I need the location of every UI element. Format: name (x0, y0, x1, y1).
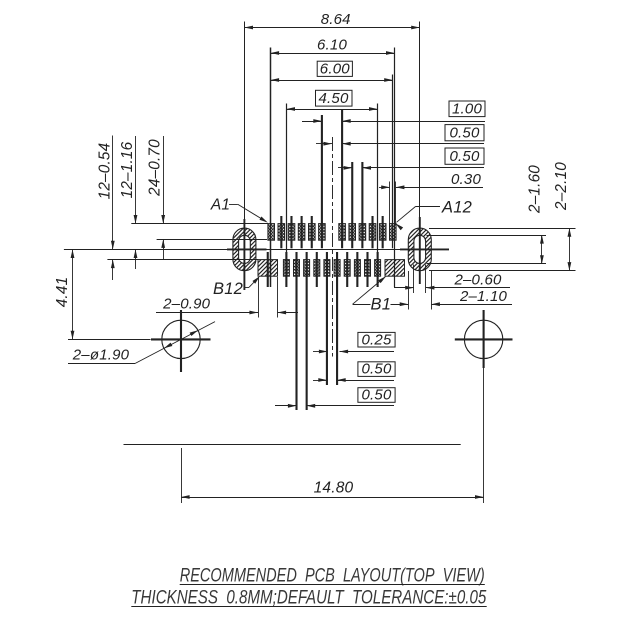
dimension 6.00 boxed (271, 61, 393, 82)
oval mounting pad left (233, 228, 256, 271)
extension line B11 (4.50) (286, 104, 288, 260)
dimension 4.50 boxed (286, 90, 377, 111)
svg-text:24–0.70: 24–0.70 (146, 139, 163, 197)
dimension 6.10 (271, 37, 395, 55)
pad A12 (390, 224, 397, 241)
dimension 14.80 (181, 480, 484, 499)
dimension 0.50 boxed (B pads left) (275, 387, 395, 408)
label A1 with leader (210, 197, 269, 225)
B row pin stubs (268, 252, 378, 410)
dimension 4.41 (54, 249, 75, 339)
oval slot top line (427, 235, 547, 237)
dimension 2-1.10 (353, 288, 512, 306)
extension line A12 (6.00) (392, 75, 394, 249)
pad B8 (narrow) (314, 260, 320, 277)
svg-text:RECOMMENDED PCB LAYOUT(TOP: RECOMMENDED PCB LAYOUT(TOP VIEW) (180, 565, 485, 587)
dimension 0.50 boxed (A8 to A9) (338, 148, 484, 170)
dimension 1.00 boxed (302, 101, 485, 123)
dimension 2-2.10 (553, 162, 571, 271)
svg-text:6.00: 6.00 (320, 61, 350, 78)
svg-text:A12: A12 (441, 199, 472, 217)
svg-text:12–1.16: 12–1.16 (119, 141, 136, 198)
extension line A1/B12 (6.10/6.00) (270, 48, 272, 288)
oval top tangent line (429, 228, 576, 230)
pad A10 (369, 224, 376, 241)
pad A9 (359, 224, 366, 241)
extension line B2 (4.50) (377, 104, 379, 260)
label A12 with leader (394, 199, 472, 231)
dimension 2-0.90 (156, 296, 298, 315)
pad B9 (narrow) (304, 260, 310, 277)
dimension 0.50 boxed (center to A7) (316, 125, 484, 146)
mounting hole circle left (151, 310, 211, 372)
pad A2 (278, 224, 285, 241)
pad A4 (298, 224, 305, 241)
oval right crosshair (400, 217, 449, 284)
dimension 8.64 (244, 11, 419, 29)
svg-text:B12: B12 (213, 280, 243, 298)
pad B3 (narrow) (365, 260, 371, 277)
extension lines oval right slot (2-0.60) (414, 265, 426, 294)
extension line oval left center (8.64) (244, 22, 246, 221)
B pad top reference line (107, 259, 258, 261)
A row pin stubs (281, 110, 382, 248)
A pad top reference line (131, 223, 268, 225)
svg-text:0.50: 0.50 (450, 148, 480, 165)
dimension 12-1.16 (119, 136, 137, 269)
mounting hole circle right (455, 310, 513, 368)
pad B10 (narrow) (294, 260, 300, 277)
svg-text:2–1.10: 2–1.10 (459, 288, 508, 305)
svg-text:0.50: 0.50 (450, 125, 480, 142)
dimension 0.25 boxed (313, 331, 395, 353)
label B12 with leader (213, 275, 261, 298)
dimension 24-0.70 (146, 136, 165, 259)
dimension 2-0.60 (394, 272, 510, 290)
svg-text:2–0.60: 2–0.60 (453, 272, 502, 289)
oval left crosshair (227, 219, 267, 290)
oval mounting pad right (408, 228, 431, 271)
dimension 0.50 boxed (B pads) (313, 361, 395, 382)
left circle centerline extension (68, 339, 151, 341)
extension line oval right center (8.64) (419, 22, 421, 218)
svg-text:0.25: 0.25 (362, 331, 392, 348)
pad B11 (narrow) (283, 260, 289, 277)
svg-text:14.80: 14.80 (314, 480, 354, 497)
label B1 with leader (353, 275, 391, 314)
pad A1 (268, 224, 275, 241)
svg-text:2–0.90: 2–0.90 (162, 296, 211, 313)
svg-text:6.10: 6.10 (317, 37, 347, 54)
svg-text:4.50: 4.50 (319, 90, 349, 107)
pad B12 (wide) (258, 260, 278, 277)
svg-text:A1: A1 (210, 197, 230, 214)
pad A3 (288, 224, 295, 241)
svg-text:2–2.10: 2–2.10 (553, 162, 570, 211)
horizontal centerline axis (64, 249, 449, 251)
pad B5 (narrow) (344, 260, 350, 277)
dimension 0.30 (A12 pad width) (379, 171, 483, 189)
oval slot bottom line (427, 263, 547, 265)
pad A8 (349, 224, 356, 241)
svg-text:12–0.54: 12–0.54 (97, 143, 114, 200)
svg-text:B1: B1 (371, 296, 392, 314)
svg-text:8.64: 8.64 (321, 11, 351, 28)
pad A7 (339, 224, 346, 241)
svg-text:0.50: 0.50 (362, 387, 392, 404)
dimension 12-0.54 (97, 136, 115, 281)
pad A5 (309, 224, 316, 241)
dimension 2-1.60 (527, 165, 544, 264)
svg-text:0.50: 0.50 (362, 361, 392, 378)
oval bottom tangent line (429, 270, 576, 272)
A pad bottom reference line (157, 239, 267, 241)
pad A6 (319, 224, 326, 241)
svg-text:1.00: 1.00 (452, 101, 482, 118)
extension line B1 (6.10) (394, 48, 396, 288)
right circle vertical extension for 14.80 (483, 368, 485, 503)
vertical centerline (332, 137, 334, 357)
board reference line (124, 444, 461, 446)
title line 1 (180, 565, 485, 587)
pad B2 (narrow) (375, 260, 381, 277)
extension lines A12 pad edges (0.30) (390, 182, 396, 224)
svg-text:2–1.60: 2–1.60 (527, 165, 544, 214)
svg-text:0.30: 0.30 (451, 171, 481, 188)
left circle vertical extension for 14.80 (181, 448, 183, 503)
title line 2 (131, 587, 486, 609)
pad A11 (379, 224, 386, 241)
pad B7 (narrow) (324, 260, 330, 277)
pad B1 (wide) (385, 260, 405, 277)
svg-text:2–ø1.90: 2–ø1.90 (72, 347, 130, 364)
svg-text:4.41: 4.41 (54, 277, 71, 308)
pad B4 (narrow) (354, 260, 360, 277)
extension lines B12 pad edges (2-0.90) (259, 277, 278, 318)
pad B6 (narrow) (334, 260, 340, 277)
extension lines oval right outer (2-1.10) (409, 271, 432, 310)
svg-text:THICKNESS 0.8MM;DEFAULT TOLE: THICKNESS 0.8MM;DEFAULT TOLERANCE:±0.05 (131, 587, 486, 609)
label 2-dia1.90 with leader (68, 322, 215, 364)
